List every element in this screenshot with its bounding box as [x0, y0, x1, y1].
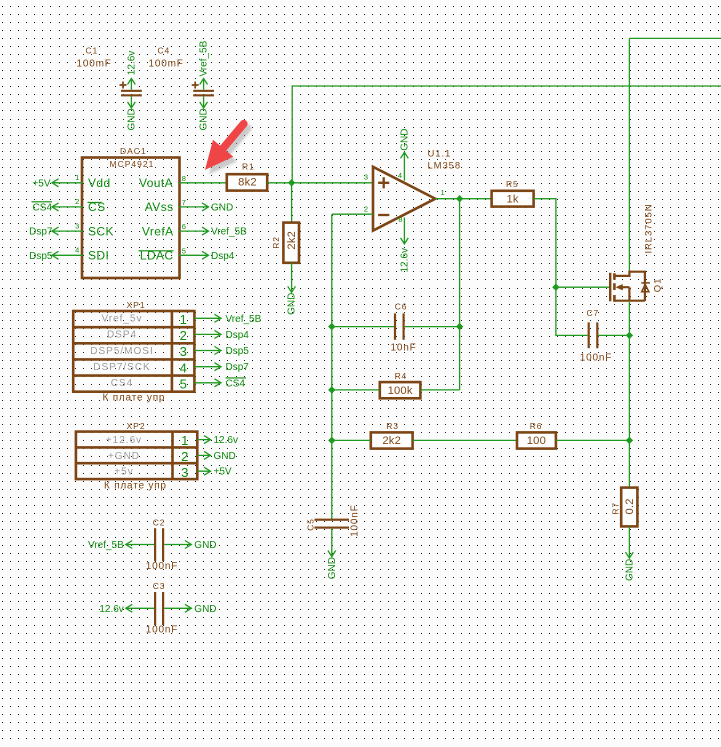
svg-text:R2: R2	[271, 236, 281, 248]
svg-text:1: 1	[441, 188, 445, 197]
op-amp pin 8 power 12.6v	[398, 215, 410, 273]
svg-text:8k2: 8k2	[238, 177, 257, 189]
svg-text:100mF: 100mF	[77, 59, 112, 70]
wire C7 right to drain rail	[598, 334, 629, 336]
svg-text:Vref_5B: Vref_5B	[199, 40, 210, 76]
svg-text:Q1: Q1	[652, 278, 663, 292]
capacitor C3	[146, 581, 178, 636]
wire node A up	[292, 86, 721, 183]
wire C3 right GND	[164, 604, 216, 615]
transistor Q1 IRL3705N	[610, 204, 663, 302]
wire R3 left	[332, 439, 371, 441]
svg-text:К плате упр: К плате упр	[103, 393, 166, 404]
resistor R7	[611, 488, 638, 527]
junction R3 left	[328, 437, 335, 444]
svg-text:1: 1	[181, 433, 188, 448]
wire R5 to gate node	[534, 199, 610, 288]
svg-text:12.6v: 12.6v	[99, 604, 123, 615]
wire XP2 pin 2	[197, 451, 210, 459]
svg-text:Vdd: Vdd	[88, 176, 111, 190]
svg-text:GND: GND	[625, 559, 636, 581]
svg-text:4: 4	[180, 360, 187, 375]
svg-text:3: 3	[364, 173, 368, 182]
wire top rail	[629, 38, 721, 270]
svg-text:CS4: CS4	[111, 378, 133, 389]
wire node A to op-amp pin 3	[292, 182, 373, 184]
resistor R2	[271, 223, 299, 263]
svg-text:2: 2	[181, 449, 188, 464]
pin 7 AVss wire	[145, 198, 209, 214]
wire feedback vertical	[331, 214, 333, 519]
svg-text:Dsp5: Dsp5	[226, 346, 250, 357]
wire 12.6v arrow above C1	[127, 51, 138, 90]
svg-text:12.6v: 12.6v	[214, 435, 238, 446]
svg-text:Dsp5: Dsp5	[29, 251, 53, 262]
svg-text:CS4: CS4	[33, 202, 53, 213]
ground below R7	[625, 526, 636, 581]
svg-text:3: 3	[75, 221, 79, 230]
svg-text:DAC1: DAC1	[120, 146, 147, 156]
pin 4 SDI wire	[52, 246, 109, 263]
junction R6 node	[626, 437, 633, 444]
node CS4 label	[226, 378, 247, 389]
svg-text:DSP5/MOSI: DSP5/MOSI	[90, 346, 153, 357]
junction C6 right	[456, 323, 463, 330]
svg-text:100nF: 100nF	[146, 625, 178, 636]
node CS4 label	[32, 202, 53, 214]
wire Vref_5B arrow above C4	[199, 40, 210, 89]
svg-text:MCP4921: MCP4921	[110, 159, 155, 169]
svg-text:GND: GND	[194, 540, 216, 551]
connector XP2	[76, 421, 197, 492]
svg-text:+5v: +5v	[114, 467, 133, 478]
ground below C4	[199, 96, 210, 130]
svg-text:К плате упр: К плате упр	[104, 481, 167, 492]
capacitor C6	[391, 302, 417, 354]
svg-text:XP2: XP2	[127, 421, 146, 431]
svg-text:2k2: 2k2	[286, 231, 298, 250]
svg-text:Vref_5v: Vref_5v	[101, 314, 142, 325]
svg-text:2k2: 2k2	[382, 435, 401, 447]
svg-text:1: 1	[75, 173, 79, 182]
svg-text:GND: GND	[199, 108, 210, 130]
svg-text:2: 2	[180, 328, 187, 343]
resistor R4	[380, 371, 421, 398]
wire source down	[628, 302, 630, 488]
wire gate node down to C7	[556, 287, 588, 335]
svg-text:10nF: 10nF	[391, 342, 417, 353]
svg-text:C2: C2	[153, 517, 165, 527]
op-amp pin 4 power GND	[398, 129, 411, 181]
wire C6 left	[332, 326, 394, 328]
svg-text:Vref_5B: Vref_5B	[211, 227, 247, 238]
svg-text:12.6v: 12.6v	[400, 248, 411, 272]
svg-text:2: 2	[364, 204, 368, 213]
resistor R5	[492, 179, 534, 206]
svg-text:GND: GND	[211, 202, 233, 213]
wire XP2 pin 3	[197, 467, 210, 475]
svg-text:100nF: 100nF	[146, 561, 178, 572]
wire XP1 pin 2	[194, 330, 221, 338]
svg-text:0.2: 0.2	[624, 498, 636, 514]
wire output node vertical	[459, 199, 461, 390]
svg-text:GND: GND	[194, 604, 216, 615]
svg-text:C7: C7	[587, 308, 599, 318]
svg-text:3: 3	[181, 465, 188, 480]
svg-text:6: 6	[182, 222, 186, 231]
ground below C1	[127, 96, 138, 130]
junction node A	[288, 179, 295, 186]
wire XP1 pin 5	[194, 379, 221, 387]
svg-text:+5V: +5V	[214, 467, 232, 478]
svg-text:DSP7/SCK: DSP7/SCK	[93, 362, 150, 373]
junction R4 left	[328, 386, 335, 393]
wire R1 to node A	[267, 182, 291, 184]
junction output node	[456, 195, 463, 202]
svg-text:Vref_5B: Vref_5B	[226, 314, 262, 325]
svg-text:IRL3705N: IRL3705N	[644, 204, 655, 254]
svg-text:R1: R1	[242, 161, 254, 171]
pin 5 LDAC wire	[139, 246, 209, 262]
svg-text:+GND: +GND	[108, 451, 140, 462]
svg-text:100mF: 100mF	[149, 59, 184, 70]
svg-text:+12.6v: +12.6v	[106, 435, 142, 446]
svg-text:4: 4	[75, 246, 79, 255]
capacitor C7	[580, 308, 612, 363]
wire C2 right GND	[164, 540, 216, 551]
svg-text:7: 7	[182, 198, 186, 207]
svg-text:C5: C5	[306, 518, 316, 530]
capacitor C5	[306, 504, 361, 536]
capacitor C4	[149, 46, 215, 97]
capacitor C2	[146, 517, 178, 572]
svg-text:100nF: 100nF	[580, 352, 612, 363]
pin 2 CS wire	[52, 197, 105, 214]
svg-text:100: 100	[527, 435, 546, 447]
svg-text:XP1: XP1	[127, 300, 146, 310]
wire XP2 pin 1	[197, 436, 210, 444]
svg-text:2: 2	[75, 197, 79, 206]
svg-text:R6: R6	[530, 421, 542, 431]
resistor R3	[371, 421, 413, 449]
svg-text:U1.1: U1.1	[428, 149, 452, 160]
svg-text:5: 5	[182, 246, 186, 255]
svg-text:C4: C4	[158, 46, 170, 56]
wire R3 to R6	[413, 439, 517, 441]
resistor R1	[227, 161, 267, 190]
svg-text:8: 8	[182, 174, 186, 183]
wire XP1 pin 1	[194, 314, 221, 322]
svg-text:Dsp4: Dsp4	[211, 251, 235, 262]
capacitor C1	[77, 46, 142, 97]
junction C6 left	[328, 323, 335, 330]
svg-text:+5V: +5V	[32, 178, 50, 189]
svg-text:C3: C3	[153, 581, 165, 591]
wire op-amp output	[435, 198, 459, 200]
svg-text:R4: R4	[395, 371, 407, 381]
svg-text:VrefA: VrefA	[142, 224, 174, 238]
wire op-amp pin 2 stub	[332, 213, 373, 215]
svg-text:SDI: SDI	[88, 249, 109, 263]
svg-text:12.6v: 12.6v	[127, 51, 138, 75]
svg-text:1k: 1k	[506, 193, 518, 205]
ground below C5	[327, 529, 338, 580]
annotation red arrow shadow	[209, 128, 248, 174]
wire XP1 pin 3	[194, 347, 221, 355]
wire output to R5	[460, 198, 492, 200]
svg-text:R5: R5	[506, 179, 518, 189]
resistor R6	[517, 421, 556, 449]
svg-text:AVss: AVss	[145, 200, 174, 214]
wire XP1 pin 4	[194, 363, 221, 371]
svg-text:GND: GND	[214, 451, 236, 462]
ground below R2	[287, 263, 298, 315]
svg-text:R7: R7	[611, 502, 621, 514]
annotation red arrow	[205, 124, 244, 170]
connector XP1	[73, 300, 194, 404]
wire R4 left	[332, 389, 380, 391]
svg-text:Dsp7: Dsp7	[29, 227, 53, 238]
wire C3 left 12.6v	[99, 604, 154, 615]
svg-text:CS4: CS4	[226, 378, 246, 389]
wire C6 right	[405, 326, 460, 328]
svg-text:GND: GND	[327, 557, 338, 579]
wire R4 right	[420, 389, 459, 391]
wire C2 left Vref_5B	[88, 540, 154, 551]
op-amp U1.1	[373, 149, 461, 231]
pin 3 SCK wire	[52, 221, 114, 238]
svg-text:8: 8	[398, 215, 402, 224]
pin 1 Vdd wire	[52, 173, 111, 190]
DAC U DAC1 MCP4921 body	[82, 146, 180, 278]
pin 6 VrefA wire	[142, 222, 209, 238]
svg-text:Vref_5B: Vref_5B	[88, 540, 124, 551]
junction gate node	[552, 284, 559, 291]
junction C7 node	[626, 332, 633, 339]
svg-text:VoutA: VoutA	[139, 176, 173, 190]
svg-text:C1: C1	[86, 46, 98, 56]
svg-text:SCK: SCK	[88, 224, 114, 238]
svg-text:LM358: LM358	[428, 160, 462, 171]
wire R6 right	[556, 439, 630, 441]
svg-text:Dsp7: Dsp7	[226, 362, 250, 373]
svg-text:100nF: 100nF	[350, 504, 361, 536]
svg-text:DSP4: DSP4	[107, 330, 137, 341]
svg-text:3: 3	[180, 344, 187, 359]
svg-text:R3: R3	[386, 421, 398, 431]
svg-text:C6: C6	[395, 302, 407, 312]
svg-text:5: 5	[180, 376, 187, 391]
svg-text:Dsp4: Dsp4	[226, 330, 250, 341]
svg-text:100k: 100k	[388, 385, 413, 397]
wire node A down to R2	[291, 183, 293, 223]
svg-text:1: 1	[180, 312, 187, 327]
svg-text:4: 4	[398, 171, 402, 180]
svg-text:GND: GND	[400, 129, 411, 151]
svg-text:GND: GND	[127, 108, 138, 130]
svg-text:GND: GND	[287, 293, 298, 315]
pin 8 VoutA wire	[139, 174, 227, 190]
